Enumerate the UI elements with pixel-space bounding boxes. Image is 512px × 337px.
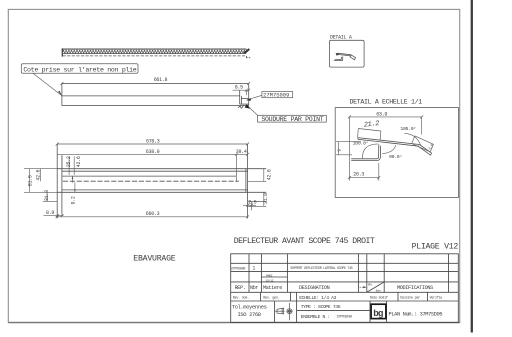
svg-text:42.6: 42.6 xyxy=(267,169,273,180)
svg-text:EBAVURAGE: EBAVURAGE xyxy=(133,254,175,263)
svg-text:SOUDURE PAR POINT: SOUDURE PAR POINT xyxy=(261,116,323,123)
svg-text:8.5: 8.5 xyxy=(235,85,243,91)
svg-text:MODIFICATIONS: MODIFICATIONS xyxy=(397,285,433,291)
svg-text:Rev. nom.: Rev. nom. xyxy=(233,297,249,301)
svg-text:Rev. gen.: Rev. gen. xyxy=(263,297,279,301)
svg-text:ISO 2768: ISO 2768 xyxy=(238,311,261,318)
svg-text:37M7S930: 37M7S930 xyxy=(337,316,352,320)
svg-text:25.2: 25.2 xyxy=(66,156,72,167)
svg-text:63.9: 63.9 xyxy=(376,111,387,117)
svg-text:31.8: 31.8 xyxy=(44,190,50,201)
svg-text:105.0°: 105.0° xyxy=(400,126,416,132)
svg-text:REV.: REV. xyxy=(368,284,373,287)
svg-text:PLAN Num.: 37M7SD05: PLAN Num.: 37M7SD05 xyxy=(389,311,443,317)
svg-text:42.6: 42.6 xyxy=(76,156,82,167)
svg-text:26.3: 26.3 xyxy=(353,172,364,178)
svg-text:Dessine par: Dessine par xyxy=(400,296,420,301)
svg-text:DESIGNATION: DESIGNATION xyxy=(299,285,330,291)
svg-text:1: 1 xyxy=(252,265,255,271)
svg-text:Verifie: Verifie xyxy=(430,296,443,301)
svg-text:2.5: 2.5 xyxy=(248,200,256,206)
svg-text:27M7S009: 27M7S009 xyxy=(263,93,289,99)
svg-text:39.4: 39.4 xyxy=(236,149,247,155)
svg-text:TYPE : SCOPE 745: TYPE : SCOPE 745 xyxy=(301,304,341,310)
svg-text:42.6: 42.6 xyxy=(35,169,41,180)
svg-text:REP.: REP. xyxy=(235,285,246,291)
svg-text:27M7S009: 27M7S009 xyxy=(231,267,245,271)
svg-text:ECHELLE: 1/4 A3: ECHELLE: 1/4 A3 xyxy=(299,295,336,301)
svg-text:MADI: MADI xyxy=(266,274,273,277)
svg-text:DETAIL A: DETAIL A xyxy=(330,35,352,41)
svg-text:bg: bg xyxy=(373,308,383,319)
svg-text:100.0°: 100.0° xyxy=(353,141,369,147)
svg-text:Tol.moyennes: Tol.moyennes xyxy=(232,304,267,311)
svg-text:660.3: 660.3 xyxy=(146,211,160,217)
svg-text:8.9: 8.9 xyxy=(46,210,54,216)
svg-text:661.8: 661.8 xyxy=(154,77,168,83)
svg-text:DETAIL A ECHELLE 1/1: DETAIL A ECHELLE 1/1 xyxy=(350,99,423,106)
svg-text:15/12: 15/12 xyxy=(266,279,274,283)
svg-text:90.0°: 90.0° xyxy=(389,154,402,160)
svg-text:ENSEMBLE N :: ENSEMBLE N : xyxy=(301,314,330,320)
svg-text:31.8: 31.8 xyxy=(263,193,269,204)
svg-text:81.5: 81.5 xyxy=(27,175,33,186)
svg-text:SUPPORT DEFLECTEUR LATERAL SCO: SUPPORT DEFLECTEUR LATERAL SCOPE 745 xyxy=(290,266,352,270)
svg-text:PLIAGE V12: PLIAGE V12 xyxy=(412,243,459,252)
svg-text:676.3: 676.3 xyxy=(146,138,160,144)
svg-text:21.2: 21.2 xyxy=(363,120,379,130)
svg-text:Matiere: Matiere xyxy=(263,285,282,291)
svg-text:Nbr: Nbr xyxy=(250,285,258,291)
svg-text:Date: Date xyxy=(376,289,382,292)
svg-text:Date modif: Date modif xyxy=(370,296,388,301)
svg-text:Cote prise sur l'arete non pli: Cote prise sur l'arete non plie xyxy=(23,66,136,73)
svg-text:9.2: 9.2 xyxy=(70,196,76,204)
svg-text:DEFLECTEUR AVANT SCOPE 745 DRO: DEFLECTEUR AVANT SCOPE 745 DROIT xyxy=(234,237,375,246)
